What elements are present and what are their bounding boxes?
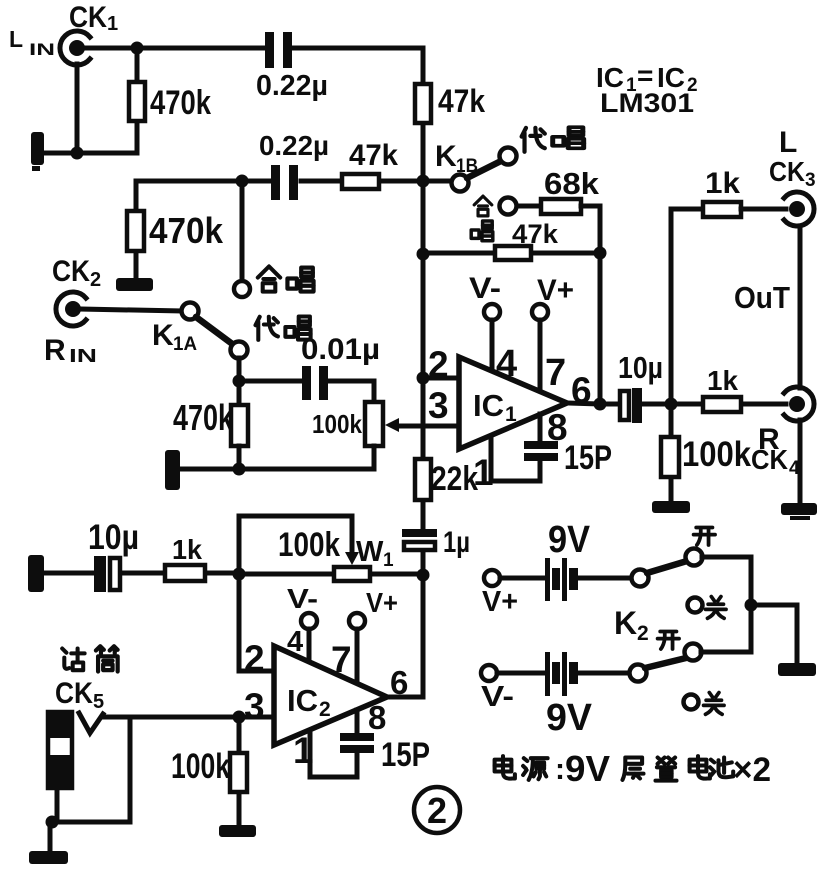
switch K2b arm	[645, 658, 686, 668]
wire main vertical bus	[421, 48, 426, 697]
svg-text:100k: 100k	[312, 409, 362, 439]
svg-text:CK: CK	[769, 156, 805, 187]
wire V+ to battery	[500, 576, 546, 581]
svg-text:10µ: 10µ	[618, 350, 663, 385]
capacitor 0.22u #2	[271, 165, 298, 200]
node junction mic ground	[46, 816, 59, 829]
label hechang (K1B contact, stacked)	[474, 196, 492, 216]
wire mic return loop	[50, 719, 130, 822]
wire output bus vertical	[598, 253, 603, 404]
resistor 1k #6 (R)	[671, 397, 786, 412]
svg-text:K: K	[152, 319, 174, 352]
op-amp IC2	[274, 646, 387, 745]
wire CK1 sleeve down	[75, 64, 80, 153]
svg-text:V+: V+	[366, 587, 398, 618]
svg-text:3: 3	[428, 385, 449, 426]
jack CK4	[784, 387, 814, 421]
wire input row	[44, 571, 239, 576]
svg-text:IN: IN	[29, 40, 55, 59]
switch K1A pivot	[182, 303, 199, 320]
svg-text:1: 1	[107, 13, 118, 35]
svg-text:470k: 470k	[173, 397, 234, 438]
svg-text:LM301: LM301	[600, 88, 694, 118]
svg-text:=: =	[637, 60, 653, 91]
svg-text:IC: IC	[473, 388, 504, 423]
svg-text:9V: 9V	[546, 697, 593, 739]
resistor R 470k #1	[129, 48, 145, 153]
wire pin3 IC1 with wiper arrow	[385, 418, 459, 432]
wire pin4 IC2	[307, 629, 312, 663]
wire battery to K2a	[578, 576, 631, 581]
label guan (off) K2b	[704, 693, 724, 715]
svg-text:OuT: OuT	[734, 280, 790, 315]
terminal V- IC2	[301, 613, 317, 629]
svg-text:15P: 15P	[381, 736, 430, 774]
svg-text:2: 2	[427, 790, 447, 831]
terminal off contact K2a	[688, 598, 703, 613]
svg-text:0.01µ: 0.01µ	[301, 333, 380, 366]
jack CK1	[60, 31, 90, 65]
terminal daichang contact K1A	[231, 342, 248, 359]
terminal daichang contact K1B	[500, 148, 517, 165]
node junction row1/470k	[131, 42, 144, 55]
wire V- to battery	[497, 671, 546, 676]
svg-text:68k: 68k	[544, 166, 600, 201]
terminal V- IC1	[484, 304, 500, 320]
svg-text:15P: 15P	[564, 439, 612, 477]
node junction pin6	[594, 398, 607, 411]
svg-text:0.22µ: 0.22µ	[259, 130, 329, 161]
svg-text:1k: 1k	[705, 167, 740, 200]
terminal V- battery	[481, 665, 497, 681]
node junction mic sum	[233, 568, 246, 581]
capacitor 0.01u	[239, 366, 374, 402]
wire ground row	[42, 151, 137, 156]
wire row1 from CK1 to coupling cap	[85, 46, 266, 51]
node junction pin2 bus	[417, 372, 430, 385]
wire pin6 IC2 to bus	[387, 695, 423, 700]
svg-text:4: 4	[496, 343, 517, 385]
svg-text:IN: IN	[69, 346, 97, 366]
svg-text:100k: 100k	[278, 526, 340, 564]
jack CK2	[56, 292, 86, 326]
schematic number circled 2	[414, 787, 460, 833]
wire left vertical to pin2	[239, 574, 274, 671]
capacitor 10u #2 output	[620, 388, 703, 423]
wire 1k to CK3	[741, 207, 786, 212]
svg-text:1B: 1B	[456, 156, 478, 177]
wire K1A contact down	[237, 358, 242, 406]
svg-text:V+: V+	[482, 586, 518, 618]
node junction daichang	[233, 375, 246, 388]
capacitor 10u #1	[94, 556, 120, 592]
ground G5 under CK4	[781, 503, 817, 520]
jack CK3	[784, 192, 814, 226]
svg-text:1: 1	[505, 403, 517, 426]
svg-text:100k: 100k	[171, 747, 230, 786]
resistor 100k #4	[661, 404, 679, 502]
wire up to 1k L	[671, 209, 703, 404]
op-amp IC1	[459, 357, 567, 449]
wire to ground G8	[48, 822, 53, 851]
svg-text:1A: 1A	[173, 334, 197, 355]
svg-text:CK: CK	[52, 255, 90, 288]
potentiometer W1 100k wiper arrow	[345, 552, 359, 565]
wire row2	[136, 179, 452, 184]
wire 68k to output bus	[581, 206, 600, 253]
wire hechang tap drop	[240, 181, 245, 281]
svg-text:3: 3	[805, 170, 816, 191]
resistor 470k #2	[127, 211, 144, 251]
resistor 47k #1	[415, 84, 431, 123]
svg-text:9V: 9V	[565, 748, 610, 789]
node junction row2 bus	[417, 175, 430, 188]
switch K1B pivot	[452, 175, 469, 192]
resistor 1k #7	[165, 565, 205, 581]
svg-text:3: 3	[244, 686, 265, 727]
resistor 100k #7	[230, 717, 247, 825]
terminal V+ battery	[484, 570, 500, 586]
wire pin6 IC1	[567, 403, 620, 404]
svg-text:47k: 47k	[349, 139, 398, 172]
svg-text:CK: CK	[751, 444, 788, 475]
svg-text:1k: 1k	[172, 534, 202, 565]
terminal on contact K2a	[686, 549, 703, 566]
svg-text:W: W	[356, 536, 384, 568]
capacitor 15P #2	[310, 710, 374, 777]
node junction output split	[665, 398, 678, 411]
svg-text:L: L	[779, 126, 797, 159]
terminal hechang open circle	[234, 281, 250, 297]
wire pin3 IC2 row	[103, 715, 274, 720]
wire feedback loop top	[239, 516, 352, 574]
wire sleeve bus CK3-CK4	[798, 226, 803, 504]
svg-text:V+: V+	[537, 274, 574, 307]
svg-text:R: R	[44, 334, 66, 367]
node junction 47k bus	[417, 248, 430, 261]
jack CK5 microphone plug	[48, 712, 103, 788]
node junction 47k out	[594, 247, 607, 260]
ground G7 under 100k	[219, 825, 256, 837]
capacitor 1u	[402, 529, 437, 550]
svg-text:V-: V-	[287, 583, 318, 614]
svg-text:7: 7	[331, 639, 352, 680]
resistor 22k	[415, 459, 431, 500]
wire pin7 IC2	[355, 629, 360, 684]
label huatong (microphone)	[62, 649, 84, 671]
node junction row2 left drop	[236, 175, 249, 188]
resistor 47k #3 feedback	[423, 246, 600, 260]
label kai (on) K2a	[694, 528, 715, 546]
resistor 47k #2	[342, 174, 379, 189]
ground G2	[116, 278, 153, 291]
header text IC1=IC2	[596, 60, 698, 96]
svg-text:CK: CK	[69, 1, 107, 34]
svg-text:5: 5	[93, 691, 104, 713]
resistor 470k #3	[231, 405, 248, 446]
svg-text::: :	[555, 753, 565, 786]
svg-text:1µ: 1µ	[443, 526, 470, 559]
svg-text:K: K	[614, 605, 637, 641]
wire K2b to common	[701, 650, 751, 655]
caption: power 9V batteries x2	[495, 748, 771, 789]
svg-text:CK: CK	[55, 677, 93, 710]
wire pin4 IC1	[490, 320, 495, 372]
svg-text:2: 2	[319, 698, 331, 721]
svg-text:2: 2	[637, 622, 649, 645]
terminal hechang contact K1B	[500, 198, 517, 215]
wire battery to K2b	[578, 671, 629, 676]
wire common to ground	[751, 605, 797, 663]
svg-text:9V: 9V	[548, 519, 591, 561]
node junction 470k bottom	[233, 463, 246, 476]
svg-text:8: 8	[368, 699, 386, 736]
switch K2b pivot	[630, 665, 647, 682]
svg-text:1: 1	[383, 550, 394, 571]
svg-text:1k: 1k	[707, 365, 738, 396]
resistor 1k #5 (L)	[703, 202, 741, 217]
resistor 68k	[541, 199, 581, 214]
svg-text:0.22µ: 0.22µ	[256, 70, 328, 102]
svg-text:100k: 100k	[682, 435, 751, 474]
svg-text:4: 4	[287, 626, 303, 658]
ground G1	[31, 132, 44, 171]
svg-text:V-: V-	[481, 681, 514, 713]
battery B2 9V	[545, 652, 578, 696]
svg-text:10µ: 10µ	[88, 518, 139, 557]
svg-text:2: 2	[90, 269, 101, 291]
capacitor 0.22u #1	[265, 32, 423, 68]
svg-text:K: K	[435, 140, 457, 173]
wire bottom row to ground	[178, 446, 374, 469]
switch K1A arm	[196, 317, 231, 343]
svg-text:22k: 22k	[431, 460, 478, 498]
label daichang (K1A)	[256, 317, 278, 340]
ground G6	[778, 663, 816, 676]
battery B1 9V	[545, 558, 578, 601]
svg-text:7: 7	[545, 352, 566, 394]
label hechang (row2 tap)	[258, 266, 280, 291]
potentiometer 100k W (IC1 input)	[365, 402, 383, 469]
wire hechang contact to 68k	[517, 204, 541, 209]
terminal input bar	[28, 555, 44, 592]
terminal V+ IC2	[349, 613, 365, 629]
wire K2a to common	[702, 557, 751, 652]
svg-text:×2: ×2	[733, 751, 771, 789]
terminal off contact K2b	[684, 695, 699, 710]
node junction pin3/100k	[233, 711, 246, 724]
node junction K2 common	[745, 599, 758, 612]
label daichang (K1B)	[522, 128, 545, 152]
svg-text:L: L	[9, 26, 23, 52]
label kai (on) K2b	[658, 632, 679, 650]
svg-text:V-: V-	[469, 272, 501, 305]
capacitor 15P #1	[491, 414, 558, 481]
wire pin2 IC1	[423, 376, 459, 381]
svg-text:470k: 470k	[149, 210, 224, 251]
label guan (off) K2a	[706, 597, 726, 619]
node junction sleeve/ground	[71, 147, 84, 160]
wire 470k#2 drop	[134, 181, 139, 280]
svg-text:47k: 47k	[438, 83, 485, 119]
node junction 1u / W1 row	[417, 569, 430, 582]
ground G8	[29, 851, 68, 864]
svg-text:470k: 470k	[150, 84, 211, 122]
svg-text:IC: IC	[287, 683, 318, 718]
wire pin7 IC1	[538, 320, 543, 392]
wire CK2 to K1A	[81, 309, 181, 311]
switch K1B arm	[467, 161, 501, 178]
svg-text:2: 2	[244, 638, 265, 679]
ground G3	[165, 450, 180, 490]
ground G4 under 100k	[652, 501, 690, 513]
switch K2a arm	[647, 561, 687, 573]
terminal V+ IC1	[532, 304, 548, 320]
potentiometer W1 body	[239, 567, 423, 581]
switch K2a pivot	[632, 570, 649, 587]
terminal on contact K2b	[685, 644, 702, 661]
svg-text:47k: 47k	[512, 219, 559, 249]
